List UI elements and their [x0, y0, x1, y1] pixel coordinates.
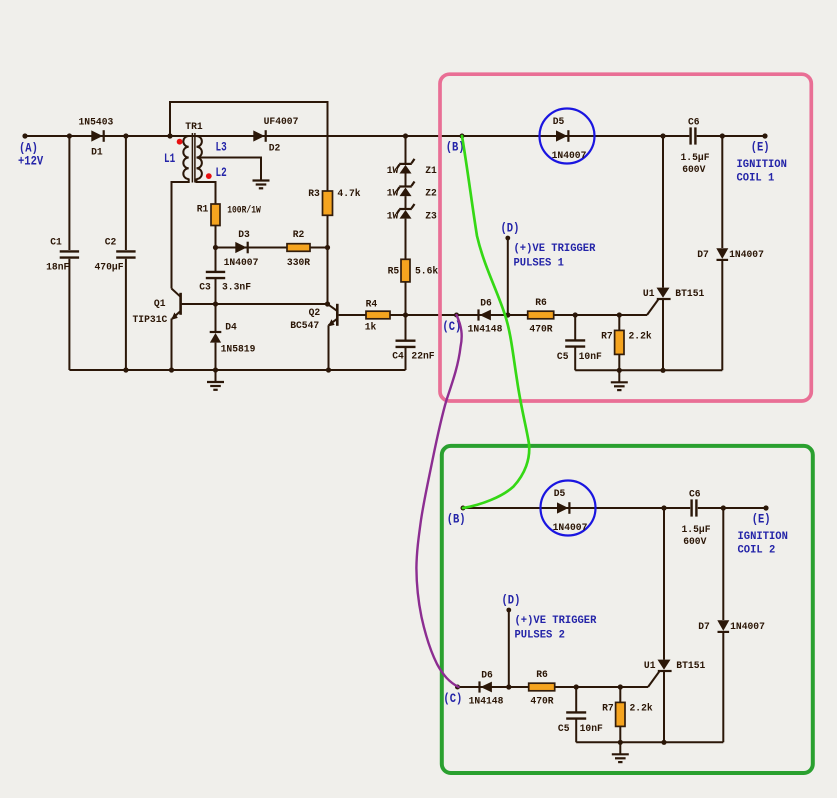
svg-text:330R: 330R: [287, 257, 311, 269]
junction Q2 collector: [325, 301, 330, 306]
thyristor U1 BT151 coil1: [662, 136, 664, 288]
svg-text:TIP31C: TIP31C: [133, 314, 168, 326]
svg-text:470µF: 470µF: [95, 262, 124, 274]
svg-text:Z3: Z3: [425, 210, 437, 222]
svg-text:IGNITION: IGNITION: [737, 159, 787, 171]
resistor R4 1k: [366, 311, 390, 319]
svg-text:C6: C6: [688, 116, 700, 128]
svg-text:L2: L2: [216, 166, 227, 180]
wire Z3 to R5: [405, 219, 407, 260]
ignition coil 1 enclosure box: [440, 74, 811, 401]
wire main +12V rail: [25, 135, 689, 137]
capacitor C6 1.5uF 600V coil1: [689, 127, 691, 144]
svg-text:470R: 470R: [529, 324, 553, 336]
resistor R5 5.6k: [401, 259, 410, 282]
svg-text:10nF: 10nF: [579, 351, 602, 363]
junction C2 top: [123, 133, 128, 138]
U1 gate wire coil1: [647, 300, 658, 315]
svg-text:BT151: BT151: [675, 288, 704, 300]
resistor R3 4.7k: [323, 191, 333, 215]
svg-text:22nF: 22nF: [411, 351, 434, 363]
transistor Q1 TIP31C: [179, 293, 182, 315]
svg-text:R3: R3: [308, 188, 320, 200]
svg-text:Q1: Q1: [154, 298, 166, 310]
svg-text:1N4007: 1N4007: [553, 522, 588, 534]
svg-text:PULSES 1: PULSES 1: [514, 257, 564, 269]
junction D7 column top coil1: [720, 133, 725, 138]
junction D4 bottom: [213, 367, 218, 372]
svg-text:R6: R6: [536, 669, 548, 681]
transistor Q2 BC547: [336, 304, 339, 326]
svg-text:(C): (C): [443, 691, 462, 706]
junction C5 top coil2: [574, 684, 579, 689]
svg-text:(D): (D): [501, 220, 520, 235]
diode D7 1N4007 coil1: [721, 136, 723, 248]
svg-text:IGNITION: IGNITION: [738, 531, 788, 543]
svg-text:1N4148: 1N4148: [468, 324, 503, 336]
svg-text:2.2k: 2.2k: [630, 703, 653, 715]
svg-text:COIL 2: COIL 2: [738, 545, 776, 557]
svg-text:COIL 1: COIL 1: [737, 173, 775, 185]
junction C1 top: [67, 133, 72, 138]
zener diode Z3 1W: [405, 196, 407, 208]
svg-text:470R: 470R: [530, 696, 554, 708]
svg-text:4.7k: 4.7k: [337, 188, 360, 200]
ground coil2: [619, 742, 621, 754]
node D2 junction: [506, 684, 511, 689]
ignition coil 2 enclosure box: [442, 446, 813, 773]
U1 gate wire coil2: [648, 672, 659, 687]
svg-text:R7: R7: [601, 331, 613, 343]
svg-text:Z2: Z2: [425, 187, 437, 199]
resistor R2 330R: [287, 244, 310, 252]
svg-text:Z1: Z1: [425, 165, 437, 177]
svg-text:C4: C4: [392, 351, 404, 363]
svg-text:(E): (E): [751, 139, 770, 154]
svg-text:D5: D5: [553, 116, 565, 128]
junction R7 bottom coil1: [617, 368, 622, 373]
svg-text:1N4007: 1N4007: [730, 621, 765, 633]
ground below L3 tap: [260, 179, 262, 181]
svg-text:100R/1W: 100R/1W: [227, 204, 261, 216]
capacitor C6 1.5uF 600V coil2: [690, 499, 692, 516]
node D1 junction: [505, 312, 510, 317]
node D1 terminal: [505, 236, 510, 241]
wire green link node B1 to B2: [462, 136, 529, 508]
wire transformer feedback loop: [170, 102, 328, 191]
transformer phase dot top: [177, 139, 183, 145]
junction D3 row left: [213, 245, 218, 250]
svg-text:C5: C5: [558, 723, 570, 735]
wire R2 junction down to Q2 collector: [327, 248, 329, 305]
wire Q2 base to R4: [339, 314, 366, 316]
svg-text:D7: D7: [698, 621, 710, 633]
svg-text:C3: C3: [199, 282, 211, 294]
svg-text:600V: 600V: [683, 536, 707, 548]
wire L3 tap to ground: [197, 158, 262, 180]
svg-text:C5: C5: [557, 351, 569, 363]
node E2 terminal: [763, 505, 768, 510]
svg-text:1W: 1W: [387, 187, 399, 199]
svg-text:R1: R1: [197, 204, 209, 216]
svg-text:+12V: +12V: [18, 153, 43, 168]
svg-text:D4: D4: [225, 322, 237, 334]
svg-text:C2: C2: [105, 237, 117, 249]
node B2 junction: [461, 506, 466, 511]
svg-text:U1: U1: [644, 660, 656, 672]
wire coil1 top rail: [462, 135, 689, 137]
junction C5 top coil1: [573, 312, 578, 317]
ground coil1: [618, 370, 620, 382]
wire trigger row coil1: [457, 314, 648, 316]
resistor R6 470R coil1: [528, 311, 554, 319]
svg-text:(+)VE TRIGGER: (+)VE TRIGGER: [514, 243, 597, 255]
svg-text:18nF: 18nF: [46, 262, 69, 274]
transformer secondary L3 L2 winding: [197, 136, 202, 179]
diode D5 1N4007 coil1: [556, 130, 567, 141]
junction zener column top: [403, 133, 408, 138]
junction D7 column top coil2: [721, 505, 726, 510]
svg-text:D2: D2: [269, 143, 281, 155]
svg-text:BC547: BC547: [290, 320, 319, 332]
junction R7 top coil2: [618, 684, 623, 689]
svg-text:PULSES 2: PULSES 2: [515, 629, 565, 641]
svg-text:(D): (D): [502, 592, 521, 607]
svg-text:1N4148: 1N4148: [469, 696, 504, 708]
diode D6 1N4148 coil2: [481, 682, 492, 693]
diode D5 1N4007 coil2: [557, 502, 568, 513]
wire L2 bottom to R1: [197, 179, 216, 205]
capacitor C1 18nF: [68, 136, 70, 250]
wire bottom ground rail: [69, 369, 405, 371]
svg-text:1.5µF: 1.5µF: [682, 524, 711, 536]
svg-text:1N4007: 1N4007: [552, 150, 587, 162]
junction transformer loop left: [167, 133, 172, 138]
node C2 junction: [455, 685, 460, 690]
junction R2 R3 column: [325, 245, 330, 250]
node C1 junction: [454, 313, 459, 318]
svg-text:1N5403: 1N5403: [79, 116, 114, 128]
junction R4 R5 C4: [403, 312, 408, 317]
svg-text:L3: L3: [216, 141, 227, 155]
svg-text:D7: D7: [697, 249, 709, 261]
wire D3 R2 row: [216, 247, 328, 249]
svg-text:R4: R4: [366, 299, 378, 311]
svg-text:(E): (E): [752, 511, 771, 526]
wire bottom rail coil2: [576, 741, 723, 743]
highlight circle around D5 coil1: [540, 109, 595, 164]
svg-text:600V: 600V: [682, 164, 706, 176]
wire bottom rail coil1: [575, 369, 722, 371]
junction Q1 emitter bottom: [169, 367, 174, 372]
svg-text:D6: D6: [481, 670, 493, 682]
ground below D4: [215, 370, 217, 382]
junction SCR anode column coil1: [660, 133, 665, 138]
capacitor C4 22nF: [405, 315, 407, 341]
junction Q1 base row at D4: [213, 301, 218, 306]
wire node D1 stub: [507, 238, 509, 315]
diode D7 1N4007 coil2: [722, 508, 724, 620]
junction SCR cathode bottom coil2: [661, 740, 666, 745]
svg-text:BT151: BT151: [676, 660, 705, 672]
wire main rail after C6: [697, 135, 765, 137]
svg-text:R5: R5: [388, 265, 400, 277]
junction R7 top coil1: [617, 312, 622, 317]
svg-text:TR1: TR1: [185, 121, 202, 133]
wire node D2 stub: [508, 610, 510, 687]
diode D4 1N5819: [215, 304, 217, 332]
svg-text:3.3nF: 3.3nF: [222, 282, 251, 294]
svg-text:(B): (B): [447, 512, 466, 527]
capacitor C2 470uF: [125, 136, 127, 250]
svg-text:R2: R2: [293, 229, 305, 241]
wire purple link node C1 to C2: [416, 315, 461, 687]
wire R4 to node C: [390, 314, 647, 316]
diode D3 1N4007: [235, 242, 246, 253]
svg-text:C6: C6: [689, 488, 701, 500]
node D2 terminal: [506, 608, 511, 613]
diode D6 1N4148 coil1: [480, 310, 491, 321]
wire L1 bottom to Q1 collector: [172, 179, 189, 289]
svg-text:UF4007: UF4007: [264, 116, 299, 128]
junction Q2 emitter bottom: [326, 367, 331, 372]
svg-text:L1: L1: [164, 152, 175, 166]
resistor R1 100R/1W: [211, 204, 220, 226]
svg-text:10nF: 10nF: [580, 723, 603, 735]
junction C2 bottom: [123, 367, 128, 372]
svg-text:1W: 1W: [387, 210, 399, 222]
svg-text:R7: R7: [602, 703, 614, 715]
node A terminal: [22, 133, 27, 138]
capacitor C3 3.3nF: [215, 248, 217, 272]
svg-text:5.6k: 5.6k: [415, 265, 438, 277]
svg-text:1N4007: 1N4007: [224, 257, 259, 269]
svg-text:(+)VE TRIGGER: (+)VE TRIGGER: [515, 615, 598, 627]
transformer TR1 primary L1 winding: [183, 136, 188, 179]
resistor R6 470R coil2: [529, 683, 555, 691]
node E1 terminal: [762, 133, 767, 138]
svg-text:2.2k: 2.2k: [629, 331, 652, 343]
svg-text:1W: 1W: [387, 165, 399, 177]
diode D1 1N5403: [91, 130, 102, 141]
wire coil2 top rail: [463, 507, 690, 509]
highlight circle around D5 coil2: [541, 481, 596, 536]
thyristor U1 BT151 coil2: [663, 508, 665, 660]
zener diode Z2 1W: [405, 174, 407, 187]
capacitor C5 10nF coil1: [574, 315, 576, 340]
junction SCR cathode bottom coil1: [660, 368, 665, 373]
node B1 junction: [460, 134, 465, 139]
resistor R7 2.2k coil2: [619, 687, 621, 702]
svg-text:Q2: Q2: [309, 307, 321, 319]
svg-text:1.5µF: 1.5µF: [681, 152, 710, 164]
junction R7 bottom coil2: [618, 740, 623, 745]
wire trigger row coil2: [458, 686, 649, 688]
wire Q1 base row: [182, 303, 328, 305]
svg-text:1N4007: 1N4007: [729, 249, 764, 261]
transformer TR1 core: [191, 133, 193, 183]
diode D2 UF4007: [253, 130, 264, 141]
transformer phase dot bottom: [206, 173, 212, 179]
resistor R7 2.2k coil1: [618, 315, 620, 330]
zener diode Z1 1W: [405, 136, 407, 163]
svg-text:D1: D1: [91, 146, 103, 158]
svg-text:D3: D3: [238, 229, 250, 241]
svg-text:D5: D5: [554, 488, 566, 500]
svg-text:R6: R6: [535, 297, 547, 309]
svg-text:1k: 1k: [365, 321, 377, 333]
svg-text:U1: U1: [643, 288, 655, 300]
svg-text:C1: C1: [50, 237, 62, 249]
capacitor C5 10nF coil2: [575, 687, 577, 712]
svg-text:1N5819: 1N5819: [221, 344, 256, 356]
junction SCR anode column coil2: [661, 505, 666, 510]
svg-text:D6: D6: [480, 298, 492, 310]
